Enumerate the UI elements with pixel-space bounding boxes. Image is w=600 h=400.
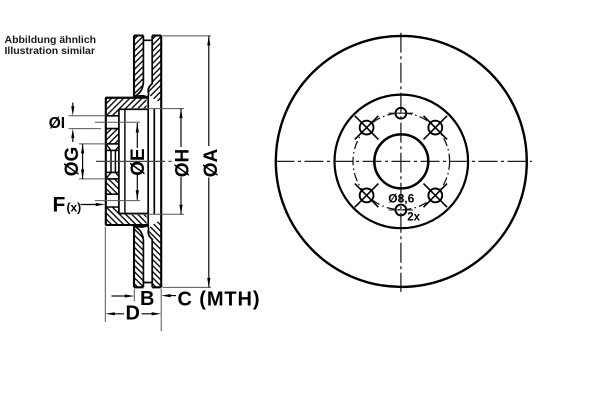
outline: hat flange top edge [105, 96, 148, 98]
hatch left friction plate [134, 36, 143, 97]
hatch web between bolt hole and bore chamfer [106, 129, 120, 144]
svg-text:F: F [53, 193, 66, 216]
outline: bore chamfer edges [111, 150, 115, 161]
outline: hat flange bottom edge [119, 108, 148, 110]
outline: hat inner projected edge [124, 110, 126, 161]
outline: projected inner edge [153, 109, 155, 162]
hatch right friction plate [148, 36, 161, 104]
pin hole top [396, 108, 407, 119]
svg-text:Illustration similar: Illustration similar [5, 45, 95, 57]
svg-text:ØG: ØG [62, 147, 83, 177]
hatch web upper [106, 109, 120, 116]
svg-text:ØE: ØE [128, 148, 149, 175]
bolt hole axis lines [95, 122, 140, 200]
mirrored bottom half [105, 179, 161, 287]
dimension D [104, 227, 106, 322]
svg-text:C (MTH): C (MTH) [178, 288, 261, 310]
outline: chamfer region lines [106, 143, 120, 145]
bolt hole 1 (upper-left) [355, 116, 379, 140]
svg-text:D: D [126, 302, 140, 324]
svg-text:(x): (x) [67, 200, 82, 214]
hatch vent floor wedge [135, 96, 149, 98]
svg-text:ØA: ØA [201, 149, 222, 178]
outline: right plate faces / vent right wall [160, 36, 162, 162]
svg-text:ØI: ØI [49, 115, 65, 132]
outline: vent slot recess [143, 36, 154, 41]
svg-text:B: B [140, 288, 154, 310]
svg-text:Ø8,6: Ø8,6 [388, 192, 414, 206]
hatch hat flange band [105, 98, 146, 109]
label C (MTH) with arrow [161, 294, 171, 297]
vertical centerline [400, 33, 402, 292]
svg-text:2x: 2x [407, 211, 420, 223]
outer circle [276, 36, 527, 287]
svg-text:ØH: ØH [173, 149, 194, 178]
outline: mounting face [105, 98, 107, 162]
bore circle [374, 134, 428, 188]
bolt hole 4 (lower-right) [424, 184, 448, 208]
bolt hole 3 (lower-left) [355, 184, 379, 208]
outline: left plate faces [133, 36, 135, 98]
outline: ring top edges [134, 34, 161, 36]
dimension B [134, 289, 161, 331]
bolt hole 2 (upper-right) [424, 116, 448, 140]
horizontal centerline [276, 160, 533, 162]
pin hole bottom [396, 205, 407, 216]
hat circle [335, 95, 469, 229]
centerline left view [96, 160, 172, 162]
bolt circle (dash-dot) [353, 113, 450, 210]
outline: web right face [118, 109, 120, 161]
outline: bolt hole walls [106, 116, 120, 129]
